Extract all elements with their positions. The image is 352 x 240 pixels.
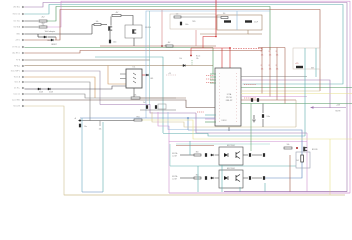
svg-text:2k2: 2k2 [296, 160, 299, 162]
wire U2 bottom pin [133, 88, 135, 98]
inductor L2 [134, 119, 142, 121]
wire [243, 177, 248, 179]
wire yellow right vertical [329, 139, 331, 195]
wire cap out [262, 119, 264, 127]
svg-text:10k: 10k [179, 58, 182, 60]
wire purple arrow [312, 107, 346, 109]
wire red riser [161, 10, 163, 46]
wire teal left edge [169, 144, 171, 166]
svg-text:Sens TMP 1: Sens TMP 1 [11, 71, 20, 73]
wire [181, 16, 222, 18]
transistor Q1 [109, 26, 113, 30]
wire magenta right vertical [306, 133, 308, 192]
capacitor C11 [205, 176, 207, 180]
wire pullup top rail [258, 47, 285, 49]
svg-text:10k: 10k [134, 95, 137, 97]
capacitor C9 [155, 105, 157, 109]
capacitor C20 [251, 98, 253, 102]
wire [215, 177, 220, 179]
wire teal drop 1 [189, 141, 191, 155]
wire pin band beige pin13 [241, 90, 320, 92]
svg-text:100n: 100n [185, 24, 189, 26]
wire teal drop [102, 122, 104, 192]
svg-text:4148: 4148 [49, 92, 53, 94]
capacitor C2 [180, 22, 182, 26]
svg-text:F88-I/P: F88-I/P [226, 100, 233, 102]
wire blue drop [236, 11, 238, 30]
svg-text:1u5: 1u5 [176, 14, 179, 16]
svg-text:10k: 10k [276, 55, 279, 57]
wire maroon rail [100, 45, 216, 47]
wire pink drop [168, 142, 170, 194]
wire [101, 24, 107, 26]
svg-text:4148: 4148 [39, 92, 43, 94]
node [79, 120, 81, 122]
diode D6 [211, 177, 213, 179]
wire [253, 115, 255, 119]
wire green opto branch [250, 104, 252, 152]
wire teal drop 4 [239, 187, 241, 192]
capacitor C21 [257, 98, 259, 102]
resistor R6 [174, 16, 181, 18]
resistor R17 vertical [301, 155, 304, 162]
module B outline [217, 15, 262, 30]
wire teal band2 [176, 143, 270, 145]
pin text left2 [206, 78, 214, 80]
wire red pin riser 2 [229, 48, 231, 70]
diode D9 [183, 64, 185, 66]
resistor R16 [284, 147, 292, 149]
transistor inside [236, 175, 240, 182]
optocoupler OK1 body [219, 147, 243, 165]
svg-text:I2C SDA: I2C SDA [13, 26, 20, 29]
resistor network R11 [269, 48, 271, 97]
wire pin band green pin17 [241, 103, 352, 105]
wire blue bus [146, 11, 270, 118]
capacitor C6 1u [296, 66, 303, 68]
svg-text:1k5: 1k5 [223, 13, 226, 15]
resistor R9 4k2 [166, 45, 173, 47]
svg-text:NOTE: NOTE [336, 111, 342, 113]
wire blue drop mid [187, 118, 189, 130]
svg-text:Case out: Case out [13, 93, 20, 96]
wire red pin riser 1 [221, 48, 223, 70]
svg-text:100n: 100n [113, 42, 117, 44]
svg-text:4k7: 4k7 [116, 12, 119, 14]
wire yellow band [142, 120, 352, 139]
node [190, 55, 192, 57]
capacitor C5 22u [245, 20, 252, 22]
wire teal drop 3 [221, 165, 223, 192]
wire [40, 88, 48, 90]
wire [215, 154, 220, 156]
wire Q1 gate riser [110, 17, 112, 26]
wire IC bottom stub [228, 127, 230, 131]
wire Q2 source drop [133, 38, 135, 46]
svg-text:+B: +B [74, 118, 76, 120]
wire I2C SCL [25, 20, 39, 22]
LED inside [224, 176, 228, 180]
module E outline [296, 152, 310, 168]
wire beige right vertical [295, 100, 297, 127]
svg-text:7815: 7815 [192, 21, 196, 23]
wire GND [25, 33, 93, 35]
wire +5V red top wrap [55, 10, 321, 92]
wire WP Aux [25, 65, 214, 67]
svg-text:MOC3041: MOC3041 [227, 168, 235, 170]
svg-text:10k: 10k [287, 144, 290, 146]
resistor R20 [194, 154, 201, 156]
wire [252, 177, 262, 179]
wire bottom pink rail [169, 192, 350, 194]
wire DC IN [25, 88, 39, 90]
svg-text:MOC3041: MOC3041 [227, 145, 235, 147]
svg-text:Aux RX in: Aux RX in [12, 52, 20, 55]
wire blue under-IC band [188, 130, 302, 178]
pin text left3 [206, 82, 214, 84]
pin stub teal [205, 114, 216, 116]
wire beige branch to U2 [108, 66, 126, 85]
capacitor C10 [205, 153, 207, 157]
wire green dash riser [191, 60, 193, 66]
svg-text:IC2A: IC2A [227, 93, 232, 96]
pin numbers left column [219, 73, 221, 123]
capacitor C13 [249, 176, 251, 180]
svg-text:10k: 10k [269, 69, 272, 71]
capacitor C12 [249, 153, 251, 157]
wire pin band purple pin11 [241, 80, 330, 108]
wire red drop right [195, 30, 197, 46]
wire +5V branch [55, 37, 57, 40]
wire [252, 154, 262, 156]
wire to R4 [91, 25, 93, 35]
pin stub pink [205, 118, 216, 120]
node [187, 117, 189, 119]
wire teal mid [95, 57, 163, 133]
module C outline [293, 48, 320, 69]
wire Therm A [25, 77, 96, 98]
pin numbers right column [236, 73, 238, 123]
svg-text:22uF: 22uF [254, 22, 258, 24]
wire teal v1 [304, 48, 306, 136]
svg-text:BD139: BD139 [312, 149, 318, 151]
diode marks inside U2 [133, 73, 136, 83]
resistor network R10 [261, 48, 263, 94]
diode D8 [146, 74, 148, 76]
wire bottom beige rail [64, 194, 345, 196]
wire pin band dkred pin16 [241, 99, 296, 101]
wire red step [203, 37, 216, 49]
ground [252, 120, 256, 122]
pin labels red [233, 48, 262, 50]
svg-text:IC1: IC1 [133, 67, 136, 69]
svg-text:Ext In red: Ext In red [13, 13, 20, 16]
wire brown step under B [200, 30, 248, 34]
svg-text:10k: 10k [276, 69, 279, 71]
svg-text:PIC16: PIC16 [226, 97, 232, 99]
svg-text:10k: 10k [96, 21, 99, 23]
resistor R8 [221, 17, 228, 19]
transistor Q2 box [125, 25, 142, 38]
pin stubs left [210, 73, 216, 75]
wire blue U bottom [82, 191, 103, 193]
pin text left [206, 75, 214, 77]
pin stub green [205, 121, 216, 123]
svg-text:L-OUT: L-OUT [172, 179, 177, 181]
wire pin band yellow pin14 [241, 93, 352, 95]
node [229, 47, 231, 49]
wire [140, 109, 176, 111]
wire net LED (purple wrap) [25, 3, 348, 192]
wire teal drop 5 [264, 183, 266, 192]
diode D5 [211, 154, 213, 156]
diode D2 [51, 39, 53, 41]
wire pin band pink pin15 [241, 96, 307, 98]
svg-text:10k: 10k [261, 69, 264, 71]
svg-text:I/O TX out: I/O TX out [12, 46, 20, 49]
wire cap feed [262, 104, 264, 114]
diode D1 [37, 34, 39, 37]
wire Sens B [25, 82, 91, 121]
module D small [158, 104, 166, 109]
svg-text:10k: 10k [269, 55, 272, 57]
svg-text:Servo IN: Servo IN [13, 105, 20, 108]
diode D4 [48, 88, 50, 90]
wire [243, 154, 248, 156]
wire PV B [25, 59, 151, 61]
wire I/O TX [25, 47, 214, 49]
svg-text:2u2: 2u2 [143, 102, 146, 104]
wire pin band green pin12 [241, 87, 352, 89]
svg-text:Case GND: Case GND [12, 100, 21, 102]
capacitor C22 100u [262, 114, 264, 118]
module A outline [170, 14, 216, 29]
wire purple under-IC band [196, 113, 307, 133]
svg-text:10k: 10k [261, 55, 264, 57]
svg-text:+5V In: +5V In [15, 40, 20, 42]
wire dkred stair [140, 97, 186, 99]
svg-text:1N5817: 1N5817 [51, 44, 57, 46]
wire teal v2 [315, 48, 317, 77]
svg-text:I2C SCL: I2C SCL [14, 21, 20, 23]
svg-text:WP Aux: WP Aux [14, 65, 20, 68]
op-amp U2 body [126, 69, 142, 88]
wire net ExtIn (teal wrap) [25, 5, 344, 85]
wire to U2 [50, 86, 126, 89]
pin stub U2 b [120, 78, 126, 80]
wire pin band gray pin10 [241, 76, 307, 78]
wire [180, 177, 194, 179]
svg-text:100u: 100u [267, 116, 271, 118]
wire +5V In [25, 39, 51, 41]
wire teal drop 2 [197, 166, 199, 192]
svg-text:Therm A: Therm A [14, 76, 21, 79]
resistor network R13 [284, 48, 286, 104]
wire red to IC top [191, 47, 230, 49]
op-amp U1 PIC16F88 body [215, 68, 241, 126]
wire ltblue band [168, 112, 188, 130]
diode D3 [38, 88, 40, 90]
svg-text:LED Neo: LED Neo [13, 7, 20, 9]
wire beige band [152, 112, 296, 127]
resistor R5 4k7 [112, 15, 121, 17]
capacitor C7 [79, 124, 81, 128]
wire [180, 154, 194, 156]
wire pink wrap [47, 1, 350, 193]
capacitor C8 [146, 105, 148, 109]
svg-text:FB1: FB1 [136, 116, 139, 118]
wire dkred opto label wire [176, 145, 214, 147]
optocoupler OK2 body [219, 170, 243, 188]
wire teal bus [149, 11, 151, 105]
wire teal separator [170, 165, 296, 167]
wire brown step2 [248, 33, 262, 35]
resistor R21 [194, 177, 201, 179]
svg-text:10u: 10u [84, 126, 87, 128]
wire R5 to Q2 [121, 16, 133, 26]
LED inside [224, 153, 228, 157]
wire Sens TMP1 [25, 71, 101, 105]
pin text red right 2 [244, 97, 256, 99]
pin text lower-left [197, 111, 204, 113]
svg-text:10k: 10k [196, 58, 199, 60]
svg-text:360: 360 [196, 151, 199, 153]
wire pink band [158, 112, 307, 142]
wire green wrap [47, 7, 270, 51]
capacitor C14 [263, 153, 265, 157]
resistor R4 10k [94, 24, 101, 26]
wire red stub U2 [142, 74, 146, 76]
transistor Q2 [133, 29, 137, 33]
node [296, 147, 298, 149]
wire green to IC [212, 48, 214, 75]
svg-text:Sens B: Sens B [15, 82, 21, 84]
svg-text:2k2: 2k2 [41, 23, 44, 25]
wire I2C SDA [25, 26, 39, 28]
svg-text:+C5: +C5 [295, 63, 298, 65]
wire blue band [80, 117, 215, 119]
transistor Q3 BD139 [304, 147, 308, 151]
wire dark red drop [289, 155, 291, 192]
pin text red right [244, 84, 256, 86]
transistor inside [236, 152, 240, 159]
wire red main vertical [215, 0, 217, 37]
wire Case out [25, 94, 131, 98]
svg-text:Wall adapter: Wall adapter [45, 30, 56, 33]
capacitor C1 100n [109, 40, 111, 44]
wire purple stair [100, 105, 196, 114]
node [215, 36, 217, 38]
wire teal band [163, 134, 305, 137]
capacitor C15 [263, 176, 265, 180]
wire blue U left [81, 118, 83, 192]
wire Case GND [25, 100, 216, 108]
wire Aux RX [25, 48, 263, 54]
pin stub U2 a [120, 73, 126, 75]
svg-text:4k2: 4k2 [168, 42, 171, 44]
wire Servo (beige wrap) [25, 106, 346, 195]
svg-text:DIL18: DIL18 [222, 120, 227, 122]
svg-text:2k2: 2k2 [41, 17, 44, 19]
wire red reset drop [190, 48, 192, 56]
resistor R14 [99, 121, 101, 127]
resistor R3 [131, 97, 140, 99]
svg-text:L-OUT: L-OUT [172, 156, 177, 158]
svg-text:DC IN +: DC IN + [14, 88, 20, 90]
node [161, 45, 163, 47]
wire [140, 97, 176, 99]
wire node rail [78, 120, 134, 122]
capacitor C4 470u [224, 20, 231, 22]
svg-text:10k: 10k [99, 129, 102, 131]
resistor network R12 [276, 48, 278, 101]
wire [109, 31, 111, 40]
wire bottom purple rail [224, 191, 347, 193]
